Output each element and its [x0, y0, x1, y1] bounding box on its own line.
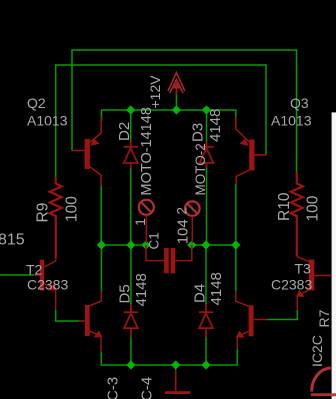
- white window edge: [332, 112, 336, 399]
- wire mid bus to left power transistor collector: [101, 245, 103, 292]
- wire +12V stem: [175, 90, 177, 110]
- svg-text:R9: R9: [35, 203, 52, 223]
- wire T3 emitter to power transistor base: [267, 310, 297, 320]
- wire mid bus right: [188, 244, 236, 246]
- svg-text:Q3: Q3: [290, 95, 309, 111]
- svg-text:A1013: A1013: [271, 113, 312, 129]
- svg-text:1: 1: [133, 218, 148, 226]
- diode D5 4148: [124, 304, 139, 337]
- junction dot mid bus C1 pin1: [141, 240, 150, 249]
- junction dot bottom bus GND: [171, 360, 180, 369]
- wire mid bus to right power transistor collector: [235, 245, 237, 292]
- wire GND stem top: [175, 365, 177, 370]
- wire net B top: [56, 65, 266, 177]
- svg-text:4148: 4148: [133, 273, 150, 306]
- diode D3 MOTO-2 4148: [199, 141, 214, 168]
- svg-text:MOTO-2: MOTO-2: [193, 143, 208, 195]
- right power transistor: [236, 291, 267, 349]
- wire T2 emitter to power transistor base: [56, 310, 79, 321]
- svg-text:T3: T3: [295, 261, 312, 277]
- svg-text:4148: 4148: [207, 109, 224, 142]
- wire net A top: [72, 50, 297, 172]
- red mark over white bottom corner: [332, 393, 336, 396]
- svg-text:R10: R10: [276, 192, 293, 221]
- wire D5 column: [130, 245, 132, 365]
- svg-text:C-4: C-4: [139, 377, 156, 399]
- wire D4 column: [205, 245, 207, 365]
- wire Q2 collector to mid bus: [100, 186, 102, 245]
- wire bottom bus: [101, 349, 237, 365]
- wire +12V bus: [102, 110, 236, 121]
- svg-text:C2383: C2383: [271, 277, 312, 293]
- junction dot top bus D3: [202, 105, 211, 114]
- svg-text:C2383: C2383: [27, 277, 68, 293]
- transistor Q2 (PNP A1013): [72, 117, 101, 186]
- C1 pin 2 no-connect circle: [185, 201, 200, 216]
- IC2C bottom bar: [311, 393, 336, 396]
- svg-text:D4: D4: [191, 284, 208, 303]
- transistor T2 C2383: [34, 258, 57, 310]
- +12V supply symbol: [168, 73, 185, 93]
- junction dot mid bus left end: [97, 240, 106, 249]
- wire D3 column upper: [206, 110, 208, 245]
- svg-text:815: 815: [0, 232, 25, 249]
- svg-text:C1: C1: [147, 232, 162, 249]
- svg-text:2: 2: [175, 207, 190, 215]
- resistor R10 100: [291, 172, 303, 256]
- IC2C gate arc: [312, 368, 331, 392]
- capacitor C1 104 plates: [164, 248, 169, 273]
- wire D2 column upper: [130, 110, 132, 245]
- svg-text:4148: 4148: [208, 272, 225, 305]
- capacitor C1 pin 2 wire: [175, 245, 192, 261]
- svg-text:A1013: A1013: [27, 113, 68, 129]
- C1 pin 1 no-connect circle: [139, 200, 154, 215]
- svg-text:R7: R7: [316, 309, 332, 327]
- svg-text:+12V: +12V: [147, 75, 163, 109]
- svg-text:C-3: C-3: [105, 377, 122, 399]
- junction dot mid bus D3/D4: [201, 240, 210, 249]
- capacitor C1 pin 1 wire: [146, 245, 164, 261]
- wire mid bus left: [102, 244, 151, 246]
- svg-text:100: 100: [64, 196, 81, 222]
- svg-text:100: 100: [304, 195, 321, 221]
- transistor T3 C2383: [296, 254, 331, 310]
- junction dot mid bus C1 pin2: [187, 240, 196, 249]
- junction dot mid bus D2/D5: [126, 240, 135, 249]
- ground symbol: [175, 370, 177, 391]
- svg-text:Q2: Q2: [27, 95, 46, 111]
- junction dot bottom bus D5: [126, 360, 135, 369]
- svg-text:D3: D3: [190, 123, 207, 142]
- junction dot top bus +12V: [172, 105, 181, 114]
- svg-text:D5: D5: [116, 284, 133, 303]
- svg-text:IC2C: IC2C: [309, 335, 325, 367]
- wire T2 base from edge: [0, 274, 34, 276]
- junction dot bottom bus D4: [201, 360, 210, 369]
- svg-text:MOTO-14148: MOTO-14148: [139, 107, 155, 195]
- diode D4 4148: [199, 304, 214, 337]
- junction dot mid bus right end: [231, 240, 240, 249]
- left power transistor: [79, 291, 102, 352]
- svg-text:T2: T2: [26, 262, 43, 278]
- diode D2 MOTO-14148: [124, 141, 139, 168]
- wire Q3 collector to mid bus: [235, 184, 237, 245]
- junction dot top bus D2: [126, 105, 135, 114]
- resistor R9 100: [50, 177, 62, 258]
- transistor Q3 (PNP A1013): [236, 117, 266, 184]
- svg-text:104: 104: [175, 219, 192, 244]
- svg-text:D2: D2: [116, 122, 133, 141]
